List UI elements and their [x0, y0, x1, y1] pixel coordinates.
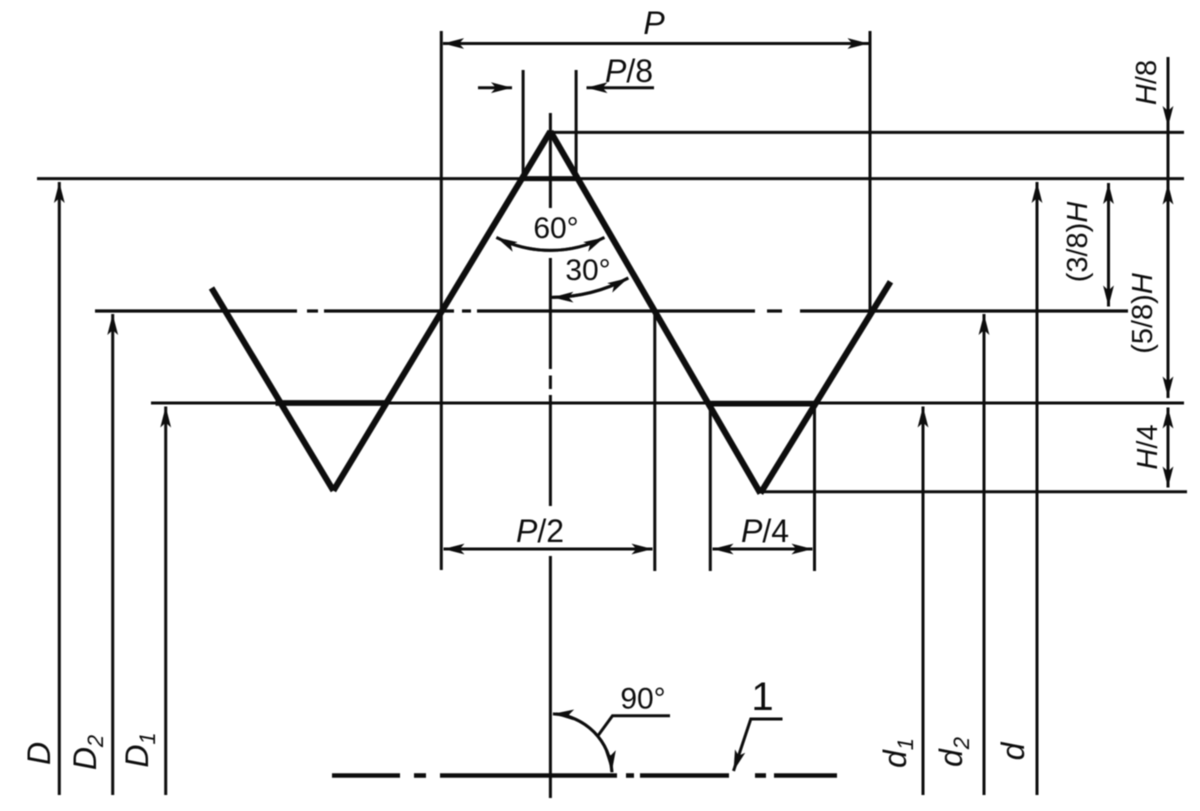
dimension H/8 + (5/8)H shared line (x=1168): [1167, 57, 1170, 398]
pitch line dash-dot: [95, 309, 1128, 312]
90 degree leader: [597, 716, 670, 737]
svg-text:P: P: [643, 5, 665, 41]
thread axis dash-dot (item 1): [332, 773, 837, 778]
root line (minor diameter level): [151, 402, 1184, 405]
dimension d2: [983, 314, 986, 795]
svg-text:P/8: P/8: [605, 53, 653, 89]
dimension D (left): [58, 182, 61, 795]
svg-text:30°: 30°: [565, 254, 610, 287]
valley bottom level line: [760, 490, 1187, 493]
svg-text:H/8: H/8: [1131, 60, 1163, 105]
90 degree angle arc: [553, 714, 612, 772]
svg-text:1: 1: [751, 675, 773, 719]
dimension P: [443, 42, 869, 45]
svg-text:90°: 90°: [620, 683, 665, 716]
extension line P right (x=870): [869, 31, 872, 313]
extension line P/4 right (x=814.5): [813, 404, 816, 571]
crest line (major diameter level): [37, 177, 1184, 180]
svg-text:D: D: [21, 742, 57, 765]
dimension P/8: [478, 86, 654, 89]
svg-text:H/4: H/4: [1132, 424, 1164, 469]
svg-text:(5/8)H: (5/8)H: [1127, 273, 1159, 354]
dimension D2: [111, 314, 114, 795]
svg-text:d: d: [995, 741, 1031, 760]
thread profile flank: left outer: [212, 288, 334, 491]
svg-text:P/4: P/4: [741, 513, 789, 549]
dimension P/2: [444, 548, 653, 551]
svg-text:60°: 60°: [533, 212, 578, 245]
thread profile flank: left valley to apex: [333, 131, 550, 490]
root flat left valley (thick, width P/4): [276, 400, 388, 406]
root flat right valley (thick, width P/4): [708, 401, 816, 407]
dimension D1: [164, 407, 167, 796]
svg-text:P/2: P/2: [516, 513, 564, 549]
peak level line (apex of fundamental triangle): [552, 131, 1184, 134]
extension line P/8 right (x=576): [575, 70, 578, 179]
extension line P/8 left (x=523): [522, 70, 525, 179]
extension line P/4 left (x=710): [709, 404, 712, 571]
extension line P/2 right (x=655): [653, 311, 656, 571]
dimension P/4: [713, 548, 813, 551]
dimension d: [1036, 182, 1039, 795]
dimension H/4: [1167, 408, 1170, 488]
thread profile flank: right outer: [760, 282, 890, 494]
30 degree angle arc: [550, 278, 628, 297]
center line of crest (vertical, dash-dot): [549, 113, 552, 798]
svg-text:(3/8)H: (3/8)H: [1062, 202, 1094, 283]
dimension d1 (right group): [922, 407, 925, 796]
thread profile flank: apex to right valley: [550, 131, 760, 493]
extension line P left / P2 left (x=441): [440, 31, 443, 570]
dimension (3/8)H: [1107, 183, 1110, 307]
60 degree angle arc: [496, 237, 604, 250]
label 1 leader with arrow: [734, 719, 783, 771]
crest flat (thick, width P/8): [522, 176, 580, 181]
